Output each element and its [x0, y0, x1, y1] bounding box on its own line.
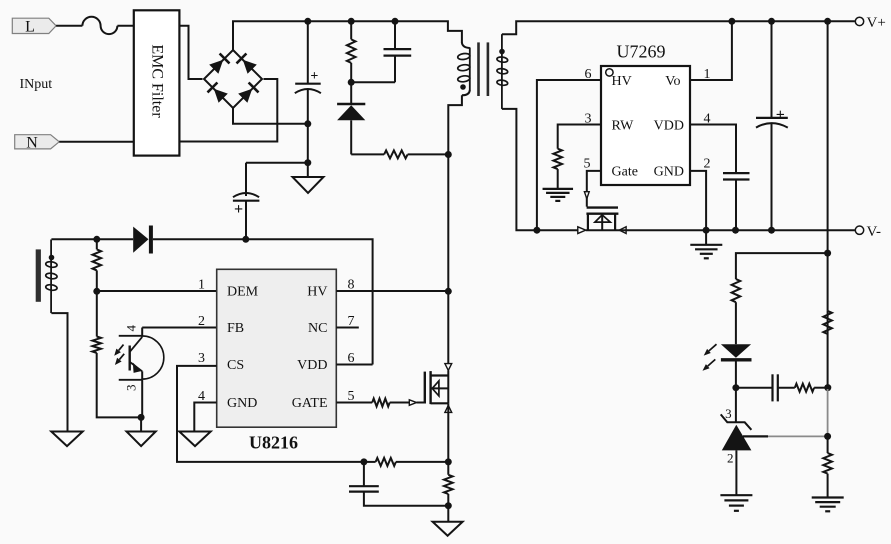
U2 pin 3 number [585, 111, 592, 126]
bridge rectifier BR1 [204, 50, 262, 108]
U2 pin 1 number [704, 67, 711, 82]
label TL431 pin 2 [727, 450, 734, 465]
node bulk cap top [304, 18, 311, 25]
svg-text:3: 3 [725, 406, 732, 421]
svg-text:6: 6 [585, 67, 592, 82]
label U8216 [249, 433, 298, 453]
connector tag L [12, 18, 56, 35]
wire aux bottom to ground [51, 313, 67, 431]
op-amp U2 U7269 body [601, 42, 690, 186]
ground opto emitter [127, 417, 156, 446]
svg-text:DEM: DEM [227, 285, 259, 300]
capacitor C1 bulk electrolytic [295, 21, 321, 124]
transistor Q1 main MOSFET [425, 371, 449, 404]
capacitor C4 VDD [723, 173, 750, 230]
resistor R7 divider lower [823, 436, 832, 497]
resistor R12 sense [444, 475, 453, 522]
U2 pin 5 number [584, 156, 591, 171]
U2 pin 4 number [704, 111, 711, 126]
svg-text:V-: V- [867, 224, 881, 240]
svg-text:2: 2 [727, 450, 734, 465]
svg-text:VDD: VDD [297, 358, 327, 373]
svg-text:3: 3 [123, 385, 138, 392]
node LED cathode [732, 384, 739, 391]
wire TL431 reference gray part [768, 389, 828, 436]
svg-text:NC: NC [308, 321, 327, 336]
wire LED branch top [736, 253, 828, 279]
capacitor C7 CS filter [349, 462, 448, 506]
U1 pin 8 number [348, 278, 355, 293]
wire RW pin3 [558, 125, 601, 149]
svg-text:EMC Filter: EMC Filter [148, 44, 165, 118]
node compensation divider [824, 384, 831, 391]
U1 pin 4 number [198, 389, 205, 404]
wire NC pin7 stub [336, 327, 359, 329]
resistor R9 DEM lower [92, 291, 141, 417]
svg-text:INput: INput [20, 77, 53, 92]
svg-text:1: 1 [198, 278, 205, 293]
wire VDD pin6 [336, 364, 372, 366]
op-amp U1 U8216 body [217, 269, 337, 427]
wire GND pin4 to ground [194, 403, 216, 432]
diode D3 aux rectifier [133, 226, 246, 254]
ground divider flat [812, 498, 844, 512]
ground RW flat [543, 189, 574, 201]
svg-text:U7269: U7269 [617, 42, 666, 62]
wire aux rect to VDD [246, 239, 373, 364]
wire HV pin6 to V- node [537, 80, 601, 230]
shunt regulator U4 TL431 [721, 414, 752, 495]
wire Gate pin5 to Q2 gate [587, 171, 601, 207]
transformer T1 primary winding [457, 42, 470, 95]
wire Q1 drain segment [447, 370, 449, 403]
wire aux top to diode [51, 238, 133, 240]
U1 pin 5 number [348, 389, 355, 404]
capacitor C5 output electrolytic [756, 21, 788, 230]
wire bridge plus to primary rail [233, 21, 462, 50]
svg-text:U8216: U8216 [249, 433, 298, 453]
node aux rect output [242, 236, 249, 243]
LED D2 optocoupler [721, 344, 752, 388]
resistor R11 CS filter series [364, 458, 448, 466]
svg-text:L: L [25, 19, 35, 36]
terminal V+ [855, 15, 885, 31]
svg-text:FB: FB [227, 321, 244, 336]
arrow Q2 left terminal [578, 227, 586, 234]
svg-text:HV: HV [612, 74, 632, 89]
node opto emitter gnd [138, 414, 145, 421]
wire GATE pin5 [336, 402, 372, 404]
wire primary bottom to drain line [448, 95, 462, 154]
wire EMC L output to bridge AC1 [179, 26, 202, 79]
svg-text:+: + [234, 201, 243, 218]
svg-text:RW: RW [612, 119, 635, 134]
ground source sense [433, 522, 463, 536]
wire CS pin3 [177, 366, 364, 462]
resistor R3 RW [553, 149, 562, 189]
wire C1 bottom to primary ground node [307, 124, 309, 177]
wire TL431 reference black part [743, 435, 768, 437]
node LED branch tap [824, 250, 831, 257]
ground TL431 flat [720, 495, 752, 511]
arrow gate Q1 [409, 400, 416, 406]
label opto pin 4 [123, 324, 138, 331]
svg-text:2: 2 [704, 156, 711, 171]
wire bridge minus to C1 bottom [233, 108, 308, 124]
label opto pin 3 [123, 385, 138, 392]
transformer T1 secondary dot [499, 49, 505, 55]
svg-text:VDD: VDD [654, 119, 684, 134]
wire drain line [447, 155, 449, 365]
wire VDD pin4 to C4 [690, 125, 736, 174]
arrow Q1 drain [445, 364, 452, 371]
svg-text:+: + [776, 106, 785, 123]
wire secondary bottom to V- rail [502, 109, 578, 230]
node snubber C top [392, 18, 399, 25]
resistor R6 divider upper [823, 311, 832, 388]
svg-text:Vo: Vo [665, 74, 680, 89]
svg-text:5: 5 [584, 156, 591, 171]
wire DEM node to pin1 [97, 290, 217, 292]
ground U8216 GND [179, 432, 210, 447]
resistor R4 LED series [732, 279, 741, 344]
transistor Q2 sync MOSFET [586, 208, 618, 231]
wire N tag to EMC filter [59, 141, 134, 143]
U1 pin 7 number [348, 314, 355, 329]
inductor L1 phase dot [49, 255, 55, 261]
node divider top rail [824, 18, 831, 25]
resistor R2 clamp series [351, 150, 448, 158]
EMC filter block U5 [134, 10, 180, 155]
arrow Q1 source [445, 405, 452, 412]
fuse F1 [82, 17, 117, 34]
node GND V- [703, 227, 710, 234]
wire GND pin2 to V- [690, 171, 706, 245]
wire Vo pin1 to V+ rail [690, 21, 732, 80]
node snubber clamp [348, 79, 355, 86]
node CS junction [360, 458, 367, 465]
arrow Q2 right terminal [619, 227, 626, 234]
node C1 bottom [304, 120, 311, 127]
arrow gate Q2 [584, 192, 589, 199]
wire opto collector to FB [142, 327, 217, 329]
node sense ground [445, 502, 452, 509]
node C5 bottom [768, 227, 775, 234]
diode D1 clamp [337, 82, 365, 154]
wire EMC N output to bridge AC2 [179, 79, 277, 142]
U2 pin 2 number [704, 156, 711, 171]
transformer T1 secondary winding [497, 34, 508, 109]
svg-text:GATE: GATE [292, 396, 328, 411]
U2 pin 6 number [585, 67, 592, 82]
node Vo rail [728, 18, 735, 25]
node aux divider top [93, 236, 100, 243]
wire gate arrow to Q1 [417, 402, 425, 404]
svg-text:+: + [310, 69, 318, 84]
svg-text:Gate: Gate [612, 165, 638, 180]
U1 pin 3 number [198, 351, 205, 366]
capacitor C6 compensation [736, 374, 795, 401]
resistor R8 DEM upper [93, 239, 102, 291]
node DEM [93, 288, 100, 295]
node HV V- [533, 227, 540, 234]
capacitor C3 snubber [351, 21, 411, 82]
optocoupler U3 phototransistor [119, 328, 164, 380]
inductor L1 aux winding [45, 240, 57, 314]
wire HV pin8 to drain [336, 290, 448, 292]
wire TL431 cathode [735, 388, 737, 422]
svg-text:GND: GND [227, 396, 257, 411]
node C4 V- [732, 227, 739, 234]
node source sense [445, 458, 452, 465]
svg-text:N: N [26, 135, 38, 152]
svg-text:HV: HV [307, 285, 327, 300]
ground U7269 GND flat [690, 245, 722, 258]
svg-text:CS: CS [227, 358, 244, 373]
wire Q1 source to sense node [447, 403, 449, 475]
resistor R5 compensation [795, 384, 828, 392]
wire L tag to fuse [56, 25, 82, 27]
node HV drain [445, 288, 452, 295]
inductor L1 core bar [36, 249, 41, 301]
transformer T1 core [477, 42, 489, 96]
U1 pin 6 number [348, 351, 355, 366]
node TL431 reference [824, 433, 831, 440]
transformer T1 primary dot [460, 84, 466, 90]
resistor R1 snubber [347, 21, 356, 82]
LED D2 emission arrows [703, 344, 717, 371]
svg-text:GND: GND [654, 165, 684, 180]
optocoupler U3 light arrows [114, 345, 124, 365]
U1 pin 1 number [198, 278, 205, 293]
wire V- rail right of Q2 [586, 229, 855, 231]
wire fuse to EMC filter [117, 25, 133, 27]
node clamp to drain [445, 151, 452, 158]
node C5 top [768, 18, 775, 25]
wire secondary top to V+ rail [502, 21, 855, 34]
terminal V- [855, 224, 881, 240]
svg-text:4: 4 [123, 324, 138, 331]
wire opto emitter down [141, 380, 143, 418]
svg-text:3: 3 [198, 351, 205, 366]
connector tag N [15, 135, 60, 152]
label INput [20, 77, 53, 92]
label TL431 pin 3 [725, 406, 732, 421]
svg-text:V+: V+ [867, 15, 886, 31]
node primary ground [304, 159, 311, 166]
ground primary bulk [293, 177, 324, 193]
ground aux winding [51, 432, 82, 447]
node snubber R top [348, 18, 355, 25]
capacitor C2 electrolytic [233, 163, 308, 240]
wire divider from V+ rail [827, 21, 829, 311]
svg-text:2: 2 [198, 314, 205, 329]
U1 pin 2 number [198, 314, 205, 329]
resistor R10 gate [372, 399, 409, 407]
